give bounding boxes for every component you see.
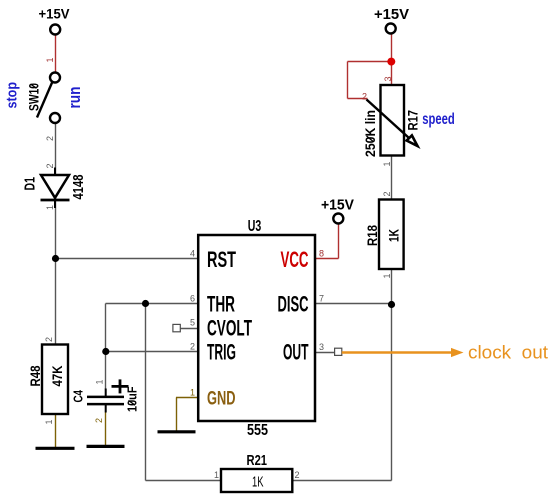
- svg-text:SW10: SW10: [26, 83, 42, 111]
- svg-text:CVOLT: CVOLT: [207, 316, 252, 341]
- svg-text:+15V: +15V: [39, 6, 71, 22]
- svg-text:2: 2: [295, 470, 300, 480]
- svg-text:speed: speed: [422, 111, 455, 128]
- svg-text:1: 1: [95, 379, 105, 384]
- svg-text:clock out: clock out: [468, 343, 548, 363]
- svg-text:1: 1: [44, 419, 54, 424]
- svg-text:RST: RST: [207, 247, 236, 272]
- svg-text:GND: GND: [207, 389, 236, 410]
- svg-text:C4: C4: [72, 390, 86, 403]
- svg-text:8: 8: [319, 249, 324, 259]
- svg-text:TRIG: TRIG: [207, 340, 236, 365]
- svg-text:THR: THR: [207, 292, 235, 317]
- svg-text:D1: D1: [22, 177, 39, 191]
- svg-text:1K: 1K: [386, 229, 402, 242]
- svg-text:3: 3: [319, 342, 324, 352]
- svg-text:+15V: +15V: [374, 6, 409, 23]
- svg-text:47K: 47K: [49, 366, 65, 387]
- svg-text:250K lin: 250K lin: [362, 110, 378, 157]
- svg-text:U3: U3: [248, 218, 262, 235]
- svg-text:VCC: VCC: [281, 247, 309, 272]
- svg-text:R21: R21: [247, 452, 268, 469]
- svg-text:2: 2: [94, 418, 104, 423]
- svg-text:4: 4: [190, 248, 195, 258]
- svg-text:5: 5: [190, 317, 195, 327]
- svg-text:1: 1: [45, 205, 55, 210]
- svg-text:10uF: 10uF: [125, 386, 140, 412]
- svg-text:+15V: +15V: [321, 197, 354, 214]
- svg-text:2: 2: [382, 191, 392, 196]
- svg-text:1: 1: [382, 161, 392, 166]
- svg-text:OUT: OUT: [283, 340, 309, 365]
- svg-text:6: 6: [190, 293, 195, 303]
- svg-text:3: 3: [383, 76, 393, 81]
- svg-text:R48: R48: [27, 365, 43, 386]
- svg-text:1: 1: [214, 470, 219, 480]
- svg-text:1K: 1K: [252, 473, 264, 490]
- svg-text:run: run: [66, 87, 84, 109]
- svg-text:555: 555: [247, 422, 268, 439]
- svg-text:R17: R17: [405, 110, 421, 131]
- svg-text:R18: R18: [364, 225, 380, 246]
- svg-text:2: 2: [45, 136, 55, 141]
- svg-text:DISC: DISC: [278, 292, 309, 317]
- svg-text:1: 1: [45, 57, 55, 62]
- svg-text:7: 7: [319, 293, 324, 303]
- svg-text:2: 2: [190, 341, 195, 351]
- svg-text:4148: 4148: [70, 175, 87, 200]
- svg-text:1: 1: [190, 388, 195, 398]
- svg-text:2: 2: [362, 91, 367, 101]
- svg-text:2: 2: [44, 337, 54, 342]
- svg-text:stop: stop: [4, 82, 21, 109]
- svg-text:1: 1: [382, 273, 392, 278]
- svg-text:2: 2: [45, 163, 55, 168]
